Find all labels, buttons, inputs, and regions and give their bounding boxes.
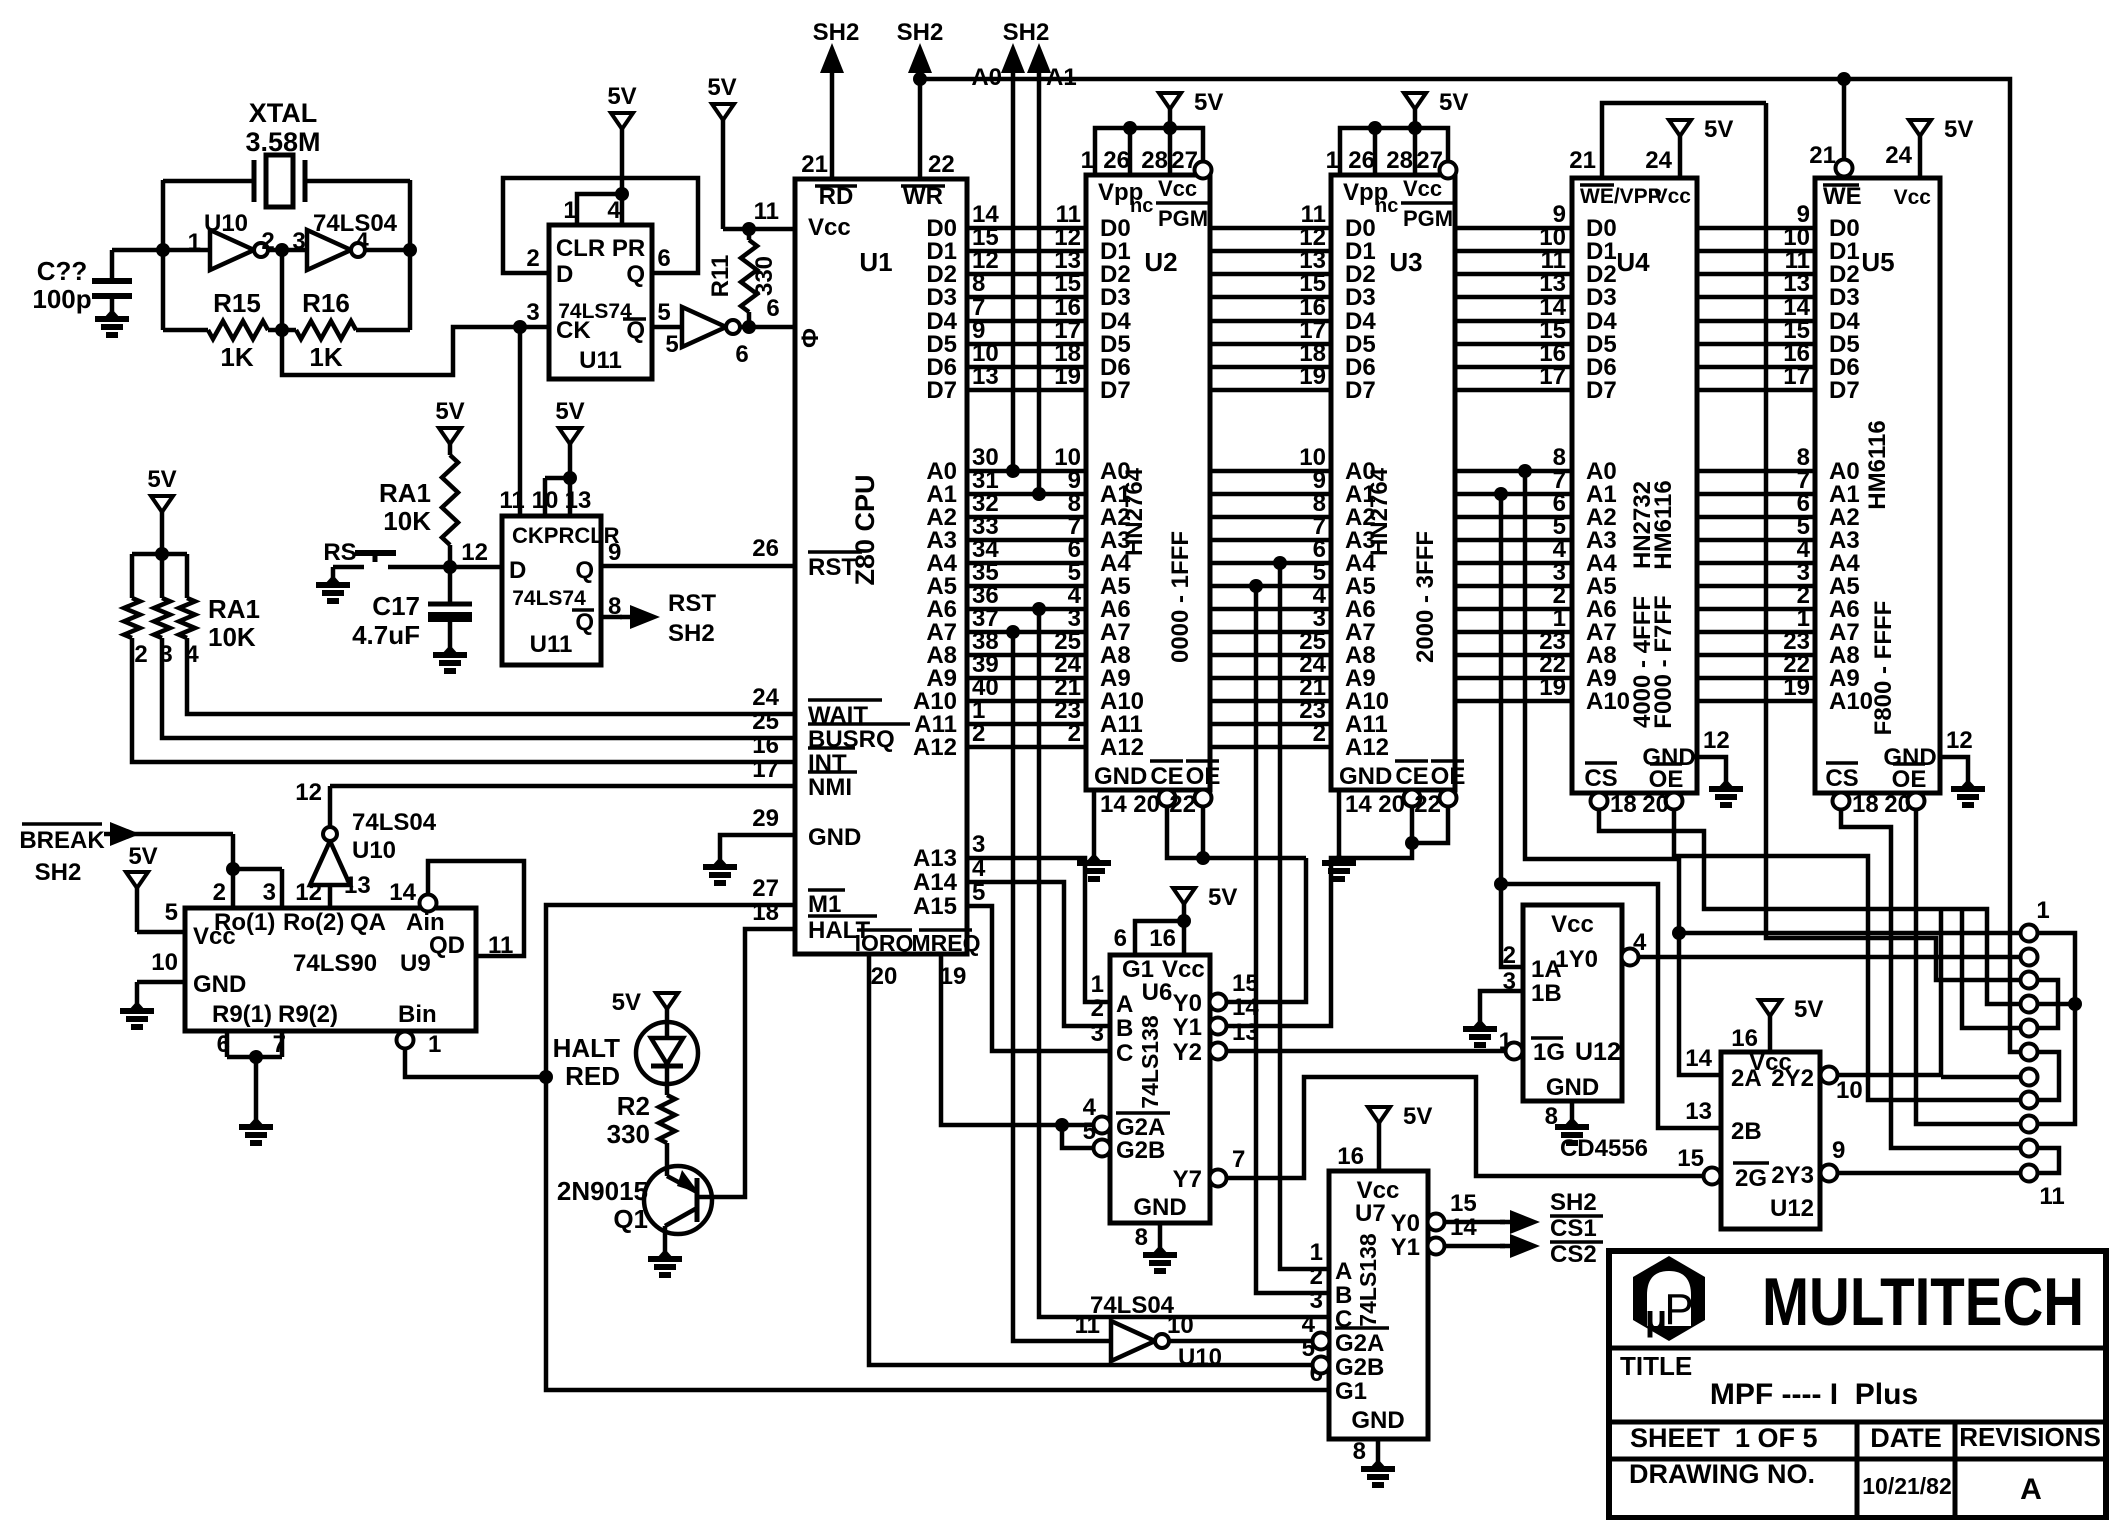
- svg-text:U10: U10: [352, 837, 396, 864]
- ground U12A pin 8: [1545, 1101, 1572, 1130]
- pin label U4 A6: [1586, 596, 1617, 623]
- svg-text:Y7: Y7: [1173, 1166, 1202, 1193]
- wire WR rail to right edge: [920, 79, 2029, 1052]
- wire D0 U4-U5: [1697, 201, 1815, 228]
- pin label U4 D0: [1586, 215, 1617, 242]
- wire D0 U1-U2: [967, 201, 1086, 228]
- label connector 11: [2039, 1183, 2064, 1210]
- pin label U5 A3: [1829, 527, 1860, 554]
- svg-text:D3: D3: [1100, 284, 1131, 311]
- node A4 tap: [1273, 556, 1287, 570]
- svg-text:20: 20: [1642, 791, 1669, 818]
- svg-text:2: 2: [526, 245, 539, 272]
- svg-text:RST: RST: [808, 554, 856, 581]
- svg-text:CS: CS: [1825, 765, 1858, 792]
- svg-text:G2A: G2A: [1335, 1330, 1384, 1357]
- pin label U5 D5: [1829, 331, 1860, 358]
- wire A8 U2-U3: [1210, 628, 1331, 655]
- svg-text:IORQ: IORQ: [855, 930, 914, 956]
- svg-text:SH2: SH2: [35, 859, 82, 886]
- title block border: [1609, 1251, 2106, 1518]
- svg-text:SH2: SH2: [897, 19, 944, 46]
- label CD4556: [1560, 1135, 1648, 1162]
- svg-text:74LS90: 74LS90: [293, 950, 377, 977]
- pin label U3 A10: [1345, 688, 1389, 715]
- svg-text:A12: A12: [913, 734, 957, 761]
- arrow SH2 from RD pin 21: [801, 19, 859, 179]
- 5V bracket U3 pins 1 26 28 27: [1326, 121, 1448, 175]
- wire A7 U1-U2: [967, 605, 1086, 632]
- wire MREQ to U6 G2A G2B: [941, 954, 1093, 1148]
- IC U12A CD4556 decoder half: [1523, 905, 1622, 1101]
- wire D1 U1-U2: [967, 224, 1086, 251]
- svg-text:D: D: [509, 557, 526, 584]
- svg-text:27: 27: [752, 875, 779, 902]
- svg-text:25: 25: [752, 708, 779, 735]
- node WR rail junction: [913, 72, 927, 86]
- connector circle 6: [2021, 1044, 2038, 1061]
- svg-text:WE/VPP: WE/VPP: [1580, 185, 1662, 208]
- svg-text:TITLE: TITLE: [1620, 1351, 1692, 1381]
- ground below C17: [433, 645, 467, 671]
- svg-text:R2: R2: [617, 1091, 650, 1121]
- pin label U2 A10: [1100, 688, 1144, 715]
- pin label U3 A0: [1345, 458, 1376, 485]
- node CK tap: [513, 320, 527, 334]
- svg-text:22: 22: [928, 151, 955, 178]
- svg-text:74LS138: 74LS138: [1137, 1015, 1163, 1109]
- svg-text:2: 2: [1068, 720, 1081, 747]
- ground U2 pin 14: [1094, 790, 1127, 856]
- svg-text:Q: Q: [626, 261, 645, 288]
- pin label U5 A9: [1829, 665, 1860, 692]
- wire Y7 to U12 2G: [1227, 1077, 1703, 1178]
- wire A7 U3-U4: [1455, 605, 1572, 632]
- svg-text:22: 22: [1169, 791, 1196, 818]
- svg-text:5V: 5V: [147, 466, 176, 493]
- pin label U2 D7: [1100, 377, 1131, 404]
- pin label U3 A8: [1345, 642, 1376, 669]
- flip-flop U11A 74LS74 (divide-by-2): [549, 225, 652, 379]
- IC U6 74LS138 decoder: [1110, 955, 1210, 1223]
- svg-text:Vcc: Vcc: [1654, 185, 1692, 208]
- ground U9 pins 6 7: [227, 1031, 282, 1120]
- wire A6 U2-U3: [1210, 582, 1331, 609]
- wire A6 U3-U4: [1455, 582, 1572, 609]
- svg-text:A12: A12: [1345, 734, 1389, 761]
- wire PR-CLR tie: [545, 471, 577, 516]
- svg-text:D7: D7: [1100, 377, 1131, 404]
- pin label U3 A2: [1345, 504, 1376, 531]
- svg-text:U11: U11: [530, 631, 573, 658]
- wire D5 U3-U4: [1455, 317, 1572, 344]
- svg-text:Y0: Y0: [1173, 990, 1202, 1017]
- svg-text:CE: CE: [1150, 763, 1183, 790]
- svg-text:D7: D7: [926, 377, 957, 404]
- svg-text:Vcc: Vcc: [808, 214, 851, 241]
- arrow RST SH2 output: [601, 590, 716, 647]
- svg-text:5V: 5V: [128, 843, 157, 870]
- svg-text:4: 4: [607, 197, 621, 224]
- pin label U4 A0: [1586, 458, 1617, 485]
- svg-text:WE: WE: [1823, 183, 1862, 210]
- svg-text:5V: 5V: [555, 398, 584, 425]
- svg-text:D3: D3: [1829, 284, 1860, 311]
- pin label U2 D2: [1100, 261, 1131, 288]
- pin numbers U7 left: [1302, 1239, 1323, 1387]
- svg-text:Vcc: Vcc: [1403, 176, 1442, 201]
- pin label U4 A3: [1586, 527, 1617, 554]
- pin circles U7 G2A G2B: [1313, 1333, 1330, 1374]
- wire connector bridge 1-9: [2038, 933, 2075, 1124]
- resistor R11 330: [707, 226, 778, 327]
- pin label U2 A3: [1100, 527, 1131, 554]
- pin label U4 A2: [1586, 504, 1617, 531]
- 5V supply LED: [612, 989, 678, 1022]
- 5V supply above RA1 pack: [147, 466, 176, 554]
- pin label U4 A7: [1586, 619, 1617, 646]
- wire D2 U1-U2: [967, 247, 1086, 274]
- wire M1-Bin to U7 G1: [546, 905, 1329, 1390]
- wire D3 U2-U3: [1210, 270, 1331, 297]
- wire RA1-2 to INT: [132, 638, 795, 762]
- wire U4 WE bracket pin 21: [1569, 103, 1766, 178]
- pin label U4 A9: [1586, 665, 1617, 692]
- capacitor C17 4.7uF: [352, 567, 472, 650]
- svg-text:R16: R16: [302, 288, 350, 318]
- flip-flop U11B 74LS74 (reset): [502, 516, 620, 665]
- IC U3 HN2764 EPROM: [1331, 175, 1465, 790]
- wire A0 U3-U4: [1455, 444, 1572, 471]
- arrow BREAK SH2 input: [19, 822, 233, 886]
- connector circle U3 pin 27: [1440, 162, 1457, 179]
- wire 1Y0 to connector 2: [1639, 955, 2020, 960]
- svg-text:GND: GND: [808, 824, 861, 851]
- svg-text:2: 2: [213, 879, 226, 906]
- svg-text:Φ: Φ: [797, 328, 824, 348]
- transistor Q1 2N9015: [557, 1166, 712, 1252]
- svg-text:5V: 5V: [1403, 1103, 1432, 1130]
- svg-text:5: 5: [657, 299, 670, 326]
- svg-text:24: 24: [1645, 147, 1672, 174]
- wire CK from oscillator: [518, 327, 523, 516]
- svg-text:5V: 5V: [607, 83, 636, 110]
- svg-text:RST: RST: [668, 590, 716, 617]
- svg-text:6: 6: [766, 295, 779, 322]
- pin label U3 A11: [1345, 711, 1388, 738]
- wire A9 U3-U4: [1455, 651, 1572, 678]
- wire A13 to U6 A: [967, 831, 1110, 1002]
- node A1 chain junction: [1494, 877, 1508, 891]
- svg-text:RED: RED: [565, 1061, 620, 1091]
- node osc input: [156, 243, 170, 257]
- svg-text:14: 14: [1345, 791, 1372, 818]
- svg-text:1K: 1K: [220, 342, 253, 372]
- svg-text:D7: D7: [1586, 377, 1617, 404]
- wire Bin to M1 net: [405, 1048, 546, 1077]
- wire D1 U4-U5: [1697, 224, 1815, 251]
- pin label U3 D5: [1345, 331, 1376, 358]
- wire A11 U1-U2: [967, 697, 1086, 724]
- svg-text:G2B: G2B: [1116, 1137, 1165, 1164]
- wire D4 U1-U2: [967, 294, 1086, 321]
- pin label U2 A12: [1100, 734, 1144, 761]
- svg-text:CD4556: CD4556: [1560, 1135, 1648, 1162]
- pin label U2 A8: [1100, 642, 1131, 669]
- svg-text:74LS04: 74LS04: [1090, 1292, 1175, 1319]
- pin label U4 D2: [1586, 261, 1617, 288]
- IC U2 HN2764 EPROM: [1086, 175, 1220, 790]
- svg-text:74LS74: 74LS74: [512, 587, 586, 610]
- pin label U2 D0: [1100, 215, 1131, 242]
- wire mid node vertical: [280, 250, 285, 330]
- pin label U4 A4: [1586, 550, 1617, 577]
- svg-text:G1: G1: [1335, 1378, 1367, 1405]
- svg-text:U10: U10: [204, 210, 248, 237]
- svg-text:U5: U5: [1861, 247, 1894, 277]
- ground U5 pin 12: [1940, 727, 1973, 782]
- svg-text:B: B: [1116, 1015, 1133, 1042]
- svg-text:Y1: Y1: [1173, 1014, 1202, 1041]
- pin label U5 D4: [1829, 308, 1860, 335]
- svg-text:1Y0: 1Y0: [1555, 946, 1598, 973]
- pin labels U1 right side D bus: [926, 215, 957, 242]
- svg-text:U10: U10: [1178, 1344, 1222, 1371]
- wire A10 U4-U5: [1697, 674, 1815, 701]
- wire A11 U2-U3: [1210, 697, 1331, 724]
- arrow SH2 A1: [1027, 43, 1077, 494]
- 5V bracket U2 pins 1 26 28 27: [1081, 121, 1203, 175]
- svg-text:13: 13: [972, 363, 999, 390]
- wire A2 U1-U2: [967, 490, 1086, 517]
- svg-text:1: 1: [1310, 1239, 1323, 1266]
- svg-text:B: B: [1335, 1282, 1352, 1309]
- label connector 1: [2036, 897, 2049, 924]
- capacitor C?? 100p: [32, 250, 163, 314]
- wire D4 U3-U4: [1455, 294, 1572, 321]
- wire A7 U2-U3: [1210, 605, 1331, 632]
- svg-text:HM6116: HM6116: [1864, 420, 1891, 509]
- svg-text:14: 14: [1685, 1045, 1712, 1072]
- wire A8 U3-U4: [1455, 628, 1572, 655]
- connector circle 2: [2021, 949, 2038, 966]
- svg-text:3: 3: [1310, 1287, 1323, 1314]
- svg-text:13: 13: [1685, 1098, 1712, 1125]
- pin label U4 A10: [1586, 688, 1630, 715]
- svg-text:15: 15: [1232, 970, 1259, 997]
- wire D4 U2-U3: [1210, 294, 1331, 321]
- svg-text:Vcc: Vcc: [1551, 911, 1594, 938]
- svg-text:13: 13: [1232, 1019, 1259, 1046]
- wire A5 U1-U2: [967, 559, 1086, 586]
- svg-text:2: 2: [134, 641, 147, 668]
- svg-text:P: P: [1664, 1285, 1693, 1334]
- svg-text:5V: 5V: [1704, 116, 1733, 143]
- node A6 tap: [1032, 602, 1046, 616]
- wire A0 U4-U5: [1697, 444, 1815, 471]
- LED HALT RED: [553, 1022, 698, 1095]
- svg-text:U1: U1: [859, 247, 892, 277]
- wire A2 U3-U4: [1455, 490, 1572, 517]
- pin label U2 D5: [1100, 331, 1131, 358]
- svg-text:RS: RS: [323, 539, 356, 566]
- node A7 tap: [1006, 625, 1020, 639]
- pin label U3 D1: [1345, 238, 1376, 265]
- svg-text:MULTITECH: MULTITECH: [1762, 1264, 2084, 1340]
- svg-text:3: 3: [972, 831, 985, 858]
- wire D5 U2-U3: [1210, 317, 1331, 344]
- svg-text:CS1: CS1: [1550, 1215, 1597, 1242]
- svg-text:SH2: SH2: [1003, 19, 1050, 46]
- svg-text:A: A: [1335, 1258, 1352, 1285]
- svg-text:R9(2): R9(2): [278, 1001, 338, 1028]
- svg-text:MPF ---- I Plus: MPF ---- I Plus: [1710, 1378, 1918, 1411]
- svg-text:74LS04: 74LS04: [352, 809, 437, 836]
- wire A1 U2-U3: [1210, 467, 1331, 494]
- node R11 bottom: [742, 320, 756, 334]
- svg-text:10K: 10K: [383, 506, 431, 536]
- svg-text:SH2: SH2: [813, 19, 860, 46]
- svg-text:5: 5: [665, 331, 678, 358]
- svg-text:20: 20: [1133, 791, 1160, 818]
- wire A9 U2-U3: [1210, 651, 1331, 678]
- ground U7 pin 8: [1353, 1438, 1378, 1465]
- 5V supply U3: [1404, 89, 1468, 128]
- svg-text:8: 8: [1353, 1438, 1366, 1465]
- svg-text:A: A: [1116, 991, 1133, 1018]
- node between inverters: [275, 243, 289, 257]
- svg-text:GND: GND: [1094, 763, 1147, 790]
- svg-text:13: 13: [344, 872, 371, 899]
- svg-text:29: 29: [752, 805, 779, 832]
- svg-text:1: 1: [1081, 147, 1094, 174]
- svg-text:HALT: HALT: [553, 1033, 621, 1063]
- pin label U5 A2: [1829, 504, 1860, 531]
- inverter U10B pins 3-4: [282, 230, 410, 270]
- svg-text:26: 26: [752, 535, 779, 562]
- pin label U4 D4: [1586, 308, 1617, 335]
- resistor R15 1K: [163, 288, 282, 372]
- svg-text:10: 10: [151, 949, 178, 976]
- svg-text:4.7uF: 4.7uF: [352, 620, 420, 650]
- connector circle U2 pin 27: [1195, 162, 1212, 179]
- svg-text:100p: 100p: [32, 284, 91, 314]
- pin circles U4 CS 18 OE 20: [1591, 791, 1683, 818]
- svg-text:16: 16: [1731, 1025, 1758, 1052]
- svg-text:HM6116: HM6116: [1650, 480, 1677, 569]
- svg-text:3: 3: [1091, 1020, 1104, 1047]
- node A5 tap: [1249, 579, 1263, 593]
- svg-text:10: 10: [1167, 1312, 1194, 1339]
- pin label U2 A1: [1100, 481, 1131, 508]
- wire U4 OE to connector 8: [1674, 810, 2020, 1100]
- wire to D pin 12: [450, 565, 502, 570]
- svg-text:RA1: RA1: [208, 594, 260, 624]
- svg-text:A15: A15: [913, 893, 957, 920]
- 5V supply above U11B: [555, 398, 584, 516]
- wire A12 U1-U2: [967, 720, 1086, 747]
- svg-text:R11: R11: [707, 255, 734, 298]
- svg-text:10K: 10K: [208, 622, 256, 652]
- svg-text:U12: U12: [1770, 1195, 1814, 1222]
- wire CLR-PR tie to 5V: [577, 187, 629, 225]
- circle U12A 1Y0: [1622, 949, 1639, 966]
- svg-text:9: 9: [1832, 1137, 1845, 1164]
- svg-text:26: 26: [1103, 147, 1130, 174]
- svg-text:20: 20: [1378, 791, 1405, 818]
- svg-text:14: 14: [1232, 994, 1259, 1021]
- pin label U2 D3: [1100, 284, 1131, 311]
- pin numbers U12A: [1499, 929, 1647, 1055]
- wire A4 U4-U5: [1697, 536, 1815, 563]
- pin label U2 D6: [1100, 354, 1131, 381]
- svg-text:PGM: PGM: [1403, 206, 1453, 231]
- arrow CS1 SH2 from U7 Y0: [1445, 1189, 1603, 1242]
- 5V supply U6: [1173, 884, 1237, 911]
- svg-text:15: 15: [1677, 1145, 1704, 1172]
- wire NMI from inverter: [330, 784, 795, 789]
- svg-text:Y0: Y0: [1391, 1210, 1420, 1237]
- svg-text:D3: D3: [1345, 284, 1376, 311]
- svg-text:20: 20: [871, 963, 898, 990]
- pin label U3 A3: [1345, 527, 1376, 554]
- wire A6 U1-U2: [967, 582, 1086, 609]
- svg-text:GND: GND: [193, 971, 246, 998]
- pin label U4 D1: [1586, 238, 1617, 265]
- pin label U2 A11: [1100, 711, 1143, 738]
- wire A9 U1-U2: [967, 651, 1086, 678]
- svg-text:GND: GND: [1351, 1407, 1404, 1434]
- ground U3 pin 14: [1339, 790, 1372, 856]
- wire D1 U2-U3: [1210, 224, 1331, 251]
- wire U5 OE to connector 9: [1916, 810, 2020, 1124]
- node osc output: [403, 243, 417, 257]
- pin circles U2 CE OE 20 22: [1133, 790, 1211, 819]
- svg-text:18: 18: [1610, 791, 1637, 818]
- svg-text:2G: 2G: [1735, 1165, 1767, 1192]
- svg-text:6: 6: [1114, 925, 1127, 952]
- label DATE: [1870, 1423, 1942, 1453]
- svg-text:10: 10: [1836, 1077, 1863, 1104]
- svg-text:OE: OE: [1431, 763, 1466, 790]
- connector circle 11: [2021, 1165, 2038, 1182]
- logo Multitech uP hexagon: [1633, 1256, 1705, 1341]
- inverter U10A pins 1-2: [163, 210, 398, 270]
- pin label U3 A12: [1345, 734, 1389, 761]
- svg-text:DRAWING NO.: DRAWING NO.: [1629, 1459, 1815, 1489]
- wire rail to U5 pin 21: [1842, 79, 1847, 160]
- pin label U3 D0: [1345, 215, 1376, 242]
- svg-text:19: 19: [940, 963, 967, 990]
- pin numbers U9: [151, 879, 513, 1058]
- wire Q to D feedback loop: [503, 178, 698, 273]
- pin label U5 A5: [1829, 573, 1860, 600]
- pin label U5 A8: [1829, 642, 1860, 669]
- wire D5 U1-U2: [967, 317, 1086, 344]
- svg-text:3: 3: [526, 299, 539, 326]
- node R15-R16 junction: [275, 323, 289, 337]
- pin circles U3 CE OE 20 22: [1378, 790, 1456, 819]
- svg-text:6: 6: [657, 245, 670, 272]
- label DRAWING NO.: [1629, 1459, 1815, 1489]
- svg-text:2N9015: 2N9015: [557, 1176, 648, 1206]
- wire A0 U2-U3: [1210, 444, 1331, 471]
- pin label U3 D7: [1345, 377, 1376, 404]
- node bridge at connector 4: [2068, 997, 2082, 1011]
- resistor R16 1K: [282, 288, 410, 372]
- pin label U4 D3: [1586, 284, 1617, 311]
- svg-text:24: 24: [752, 684, 779, 711]
